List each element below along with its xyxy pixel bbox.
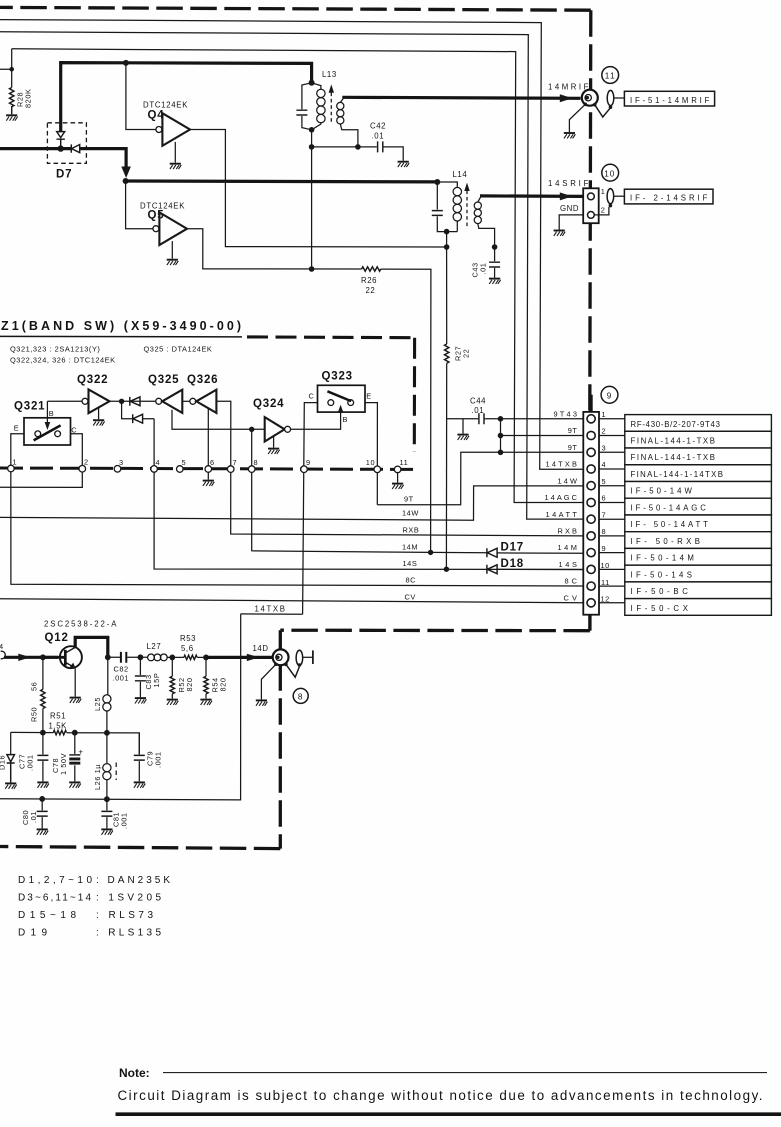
transistor Q322 [82,398,88,404]
transistor Q321 body [24,418,71,445]
node junction R53 / R54 [203,655,209,661]
svg-text:R53: R53 [180,634,196,643]
J9 pin 2 [587,431,595,439]
svg-text:11: 11 [605,72,617,81]
node junction rail / R50 [40,730,46,736]
wire 9T run from pin10 [377,452,583,505]
svg-text:IF- 50-RXB: IF- 50-RXB [631,537,701,546]
svg-text:CV: CV [564,593,578,602]
wire net 14ATT top bus (line B) [0,32,583,519]
module dashed box right edge [279,630,282,848]
svg-text:11: 11 [400,458,409,467]
svg-text:: RLS73: : RLS73 [96,910,154,921]
arrow on 14SRIF line [560,192,573,200]
wire ground rail and 14TXB riser [0,614,241,800]
Q323 base arrow [340,410,342,413]
svg-text:: DAN235K: : DAN235K [96,875,171,886]
wire Q322 node down to D16 [122,401,155,418]
node junction L27 / R52 [169,655,175,661]
ground below C79 [134,782,146,787]
svg-text:FINAL-144-1-14TXB: FINAL-144-1-14TXB [631,470,724,479]
diode D17 [487,548,497,557]
svg-text:D3~6,11~14: D3~6,11~14 [18,893,92,904]
destination box row 9 [625,548,772,565]
svg-text:Q321: Q321 [14,401,45,413]
svg-text:9T: 9T [568,426,578,435]
J9 pin 6 [587,498,595,506]
resistor R50 [42,657,44,689]
connector J9 stub bottom [588,615,591,631]
svg-text:B: B [49,409,54,418]
node junction collector / C82 / L25 [105,654,111,660]
svg-text:Q322: Q322 [77,374,108,386]
svg-text:820: 820 [185,678,194,692]
node junctions 9T tie [498,416,504,422]
circled 9 [601,386,618,403]
destination box row 4 [625,465,772,482]
svg-text:.001: .001 [154,751,163,768]
capacitor C42 [312,147,404,161]
svg-text:9: 9 [607,391,612,400]
svg-text:6: 6 [210,458,215,467]
svg-text:Note:: Note: [119,1066,150,1080]
bottom rule [116,1112,781,1116]
node junction Q324 input [249,427,254,432]
svg-text:5: 5 [182,458,187,467]
J9 pin 3 [587,448,595,456]
capacitor C77 [42,733,44,782]
destination box row 6 [625,498,772,515]
wire J8 ground prong [261,664,276,699]
wire 9T tie pins 1-3 [501,419,584,453]
svg-text:D19: D19 [18,928,48,939]
node junction bus2 start [123,178,129,184]
svg-text:RXB: RXB [558,527,578,536]
svg-text:R26: R26 [361,276,377,285]
wire J10 gnd [559,215,583,230]
svg-text:7: 7 [602,510,607,519]
node junction rail / C78 [72,730,78,736]
svg-text:E: E [14,424,19,433]
capacitor C43 [494,247,496,278]
wire L13 bottom to C42 line and down [311,130,313,269]
wire Q12 emitter [74,669,76,697]
svg-text:: 1SV205: : 1SV205 [96,893,162,904]
destination box row 1 [625,415,772,432]
J8 hook [286,664,300,677]
wire Q322 output node [110,400,156,402]
boundary: right dashed page border [590,10,591,412]
svg-text:DTC124EK: DTC124EK [143,101,188,110]
L13 adjustable core [330,93,332,125]
wire Q325 emitter to Q324 input [172,410,265,430]
svg-text:14SRIF: 14SRIF [548,179,589,188]
wire net 14TXB top bus (line A) [0,20,583,470]
wire thick Q12 collector loop [75,637,108,657]
svg-text:8C: 8C [406,576,417,585]
destination box row 7 [625,515,772,532]
svg-text:14AGC: 14AGC [545,493,578,502]
node junction C82 / C83 / L27 [138,654,144,660]
J9 wires to destination boxes [599,419,625,603]
connector J10 box [583,188,599,223]
svg-text:RF-430-B/2-207-9T43: RF-430-B/2-207-9T43 [631,420,721,429]
diode D16 (in Z1) [133,414,143,423]
svg-text:3: 3 [119,458,124,467]
svg-text:GND: GND [560,204,579,213]
svg-text:CV: CV [405,593,416,602]
ground below C78 [69,782,81,787]
node junction rail / L26 C81 [104,796,110,802]
inductor L25 [106,657,109,733]
resistor R1 R28 [10,88,14,115]
svg-text:2SC2538-22-A: 2SC2538-22-A [44,620,117,629]
resistor R53 [184,655,197,659]
svg-text:9: 9 [306,458,311,467]
svg-text:9T43: 9T43 [554,409,578,418]
inductor L26 [106,733,108,800]
svg-text:14S: 14S [403,559,418,568]
diode D16 [10,732,12,754]
wire pin4 vertical to 14S [154,419,583,570]
wire Q321 C to pin2 then left edge [0,434,82,488]
transistor Q326 [190,398,196,404]
Z1 dashed box top edge [247,335,415,339]
svg-text:3: 3 [602,444,607,453]
svg-text:D17: D17 [501,542,525,554]
Z1 pin circles [8,465,15,472]
svg-text:820K: 820K [24,89,33,108]
svg-text:Q323: Q323 [322,371,353,383]
svg-text:14M: 14M [402,543,418,552]
arrow to 14D [247,654,259,661]
diode D7 dashed package box [47,123,86,164]
svg-text:22: 22 [366,286,376,295]
svg-text:L25: L25 [93,697,102,711]
node junction R27 line to 14S [444,567,449,572]
svg-text:9T: 9T [568,443,578,452]
wire Q323 E to pin10 [365,403,377,505]
destination box row 12 [625,599,772,616]
svg-text:D7: D7 [56,169,72,181]
svg-text:4: 4 [602,460,607,469]
resistor R51 [53,730,66,734]
ground below R28 [6,115,18,120]
wire Q322 input [47,400,82,402]
capacitor L14 tank cap [437,182,457,232]
diode D7 upper element (vertical) [57,132,65,149]
inductor L13 secondary winding [337,102,344,109]
svg-text:1,5K: 1,5K [49,722,68,731]
capacitor C83 [139,657,141,697]
wire Q323 C to pin9 [303,403,318,615]
ground below C81 [101,829,113,834]
svg-text:Q325: Q325 [148,374,179,386]
svg-text:2: 2 [84,458,89,467]
wire net 14AGC top bus (line C) [12,49,584,503]
svg-text:: RLS135: : RLS135 [96,928,162,939]
arrow down onto bus2 [121,167,131,179]
ground at C44 [457,435,469,440]
ground below pin11 [397,472,399,483]
node junction rail / C80 [39,796,45,802]
svg-text:14D: 14D [253,644,269,653]
connector J9 stub top [589,395,592,412]
svg-text:14S: 14S [559,560,578,569]
capacitor C44 [447,419,584,434]
ground below Q324 [268,449,280,454]
J8 mating pin [296,650,303,665]
svg-text:.001: .001 [120,812,129,829]
resistor R27 [446,247,448,344]
node junction D7 [58,145,64,151]
svg-text:4: 4 [156,458,161,467]
svg-text:1: 1 [13,458,18,467]
node junction Q5 line / L13 leg [309,266,315,272]
svg-text:Q322,324, 326 : DTC124EK: Q322,324, 326 : DTC124EK [10,356,116,365]
connector J9 strip [583,412,599,615]
svg-text:.01: .01 [472,406,485,415]
svg-text:.001: .001 [113,674,130,683]
node junction R26 to 14M [428,550,433,555]
svg-text:9T: 9T [404,495,414,504]
svg-text:Q326: Q326 [187,374,218,386]
svg-text:L26 1µ: L26 1µ [93,764,102,790]
svg-text:IF-50-14S: IF-50-14S [631,570,693,579]
svg-text:Z1(BAND SW) (X59-3490-00): Z1(BAND SW) (X59-3490-00) [1,319,241,333]
wire thick 14SRIF output [480,194,583,198]
svg-text:14MRIF: 14MRIF [548,83,589,92]
destination box IF-51-14MRIF [624,91,714,106]
circled 10 [602,164,619,181]
svg-text:Q324: Q324 [253,398,284,410]
ground below C42 [398,162,410,167]
circled 11 [602,67,619,84]
wire R26 to 14M [381,269,431,552]
destination box row 8 [625,532,772,549]
transistor Q325 [156,398,162,404]
wire left edge curl [1,651,6,659]
svg-text:1: 1 [601,187,606,196]
svg-text:.01: .01 [479,263,488,275]
J9 pin 5 [587,482,595,490]
node junction L13 bottom [309,127,315,133]
J11 hook [595,105,611,117]
J9 pin 8 [587,532,595,540]
resistor R26 [362,267,381,271]
inductor L13 primary winding [312,83,321,130]
node junction C42 line [309,144,315,150]
diode D18 [487,565,497,574]
ground below D16 [5,783,17,788]
note separator line [163,1072,767,1074]
capacitor C78 electrolytic [74,733,76,782]
ground below C77 [37,782,49,787]
wire Q325 to Q326 [182,400,190,402]
wire pin8 vertical / 14M run [252,429,584,553]
diode D15 [130,397,140,406]
destination box IF-2-14SRIF [624,189,713,204]
boundary: top dashed page border [0,7,591,10]
svg-text:4: 4 [0,642,4,651]
wire Q4 input [126,63,156,130]
svg-text:Q12: Q12 [45,632,69,644]
svg-text:D1,2,7~10: D1,2,7~10 [18,875,93,886]
svg-text:8: 8 [298,693,303,702]
wire 14W run [0,486,583,520]
node junction rail / L25 [104,730,110,736]
diode D7 right element (horizontal) [71,144,79,152]
wire Q5 output to R26 [187,229,362,269]
ground below R52 [167,700,179,705]
svg-text:L13: L13 [322,70,337,79]
Z1 title underline [0,335,242,338]
J9 pin 10 [587,565,595,573]
svg-text:D18: D18 [501,558,525,570]
ground below Q4 [170,164,182,169]
ground at J10 [554,231,566,236]
capacitor C79 [138,733,140,782]
svg-text:FINAL-144-1-TXB: FINAL-144-1-TXB [631,453,716,462]
svg-text:RXB: RXB [403,526,420,535]
node junction Q4 line / L14 [444,244,450,250]
capacitor C81 [106,799,108,828]
capacitor C82 [108,656,141,658]
wire thick bus1 from D7 up and right to L13 [61,63,312,132]
wire J10 pin2 to mating pin [594,207,609,215]
Q321 base arrow [46,401,48,422]
node junction Q12 base / R50 [40,654,46,660]
svg-text:22: 22 [462,349,471,358]
connector J8 coax jack 14D [273,649,289,665]
inductor L14 primary winding [437,182,457,232]
wire 14TXB link line [241,613,303,615]
wire 14S diode to pin10 [497,568,583,570]
svg-text:FINAL-144-1-TXB: FINAL-144-1-TXB [631,437,716,446]
svg-text:.01: .01 [372,132,385,141]
svg-text:14ATT: 14ATT [546,510,578,519]
svg-text:14TXB: 14TXB [546,460,578,469]
svg-text:B: B [343,415,348,424]
ground below C83 [135,698,147,703]
ground below Q5 [167,260,179,265]
destination box row 5 [625,482,772,499]
ground below C80 [37,829,49,834]
node junction L14 top [434,179,440,185]
svg-text:.001: .001 [26,754,35,771]
ground at J8 [256,700,268,705]
transistor Q323 body [318,385,366,412]
J9 pin 4 [587,465,595,473]
destination box row 3 [625,448,772,465]
resistor R54 [205,657,207,676]
wire Q321 E to pin1 and 8C run [11,434,584,586]
svg-text:56: 56 [30,682,39,691]
wire Q326 output to pin7 / RXB [216,401,583,536]
wire bias rail [11,732,140,754]
connector J11 coax jack [582,90,598,106]
svg-text:L14: L14 [453,170,468,179]
node junction C43 [492,244,498,250]
J11 mating pin [607,90,614,105]
wire Q326 emitter to pin6 [207,408,209,480]
node junction L13 top [309,80,315,86]
svg-text:5,6: 5,6 [181,644,194,653]
svg-text:15P: 15P [152,673,161,688]
svg-text:14M: 14M [558,543,578,552]
svg-text:6: 6 [602,494,607,503]
svg-text:8C: 8C [565,577,578,586]
ground below pin6 [203,481,215,486]
svg-text:Circuit Diagram is subject to: Circuit Diagram is subject to change wit… [118,1088,763,1103]
J9 pin 9 [587,549,595,557]
destination box row 2 [625,431,772,448]
svg-text:2: 2 [602,427,607,436]
module dashed box bottom edge [0,847,280,849]
svg-text:C82: C82 [114,665,129,674]
transistor Q12 [60,646,82,668]
J9 pin 11 [587,582,595,590]
svg-text:5: 5 [602,477,607,486]
Z1 dashed box right edge [413,338,416,452]
svg-text:+: + [79,748,84,757]
transistor Q324 [265,417,285,441]
wire L14 bottom to Q4 line [446,232,448,247]
wire thick to 14D [206,656,273,659]
svg-text:C: C [71,426,77,435]
node junction at R28 top [9,67,14,72]
J10 mating pin [607,189,614,204]
svg-text:Q321,323 : 2SA1213(Y): Q321,323 : 2SA1213(Y) [10,345,100,354]
svg-text:R51: R51 [50,712,66,721]
arrow on Q12 input [18,654,30,661]
J9 pin 7 [587,515,595,523]
wire Q4 output to L14 tank bottom [190,130,447,248]
svg-text:9: 9 [602,544,607,553]
arrow on 14MRIF line [560,94,573,102]
resistor R52 [171,657,173,676]
svg-text:1: 1 [602,410,607,419]
svg-text:L27: L27 [147,642,162,651]
wire R28 feed from left edge [0,49,12,88]
svg-text:10: 10 [604,169,615,178]
ground below Q322 [93,420,105,425]
circled 8 [293,688,308,703]
wire thick main input line through D7 [0,149,126,169]
wire CV run [0,599,583,603]
svg-text:.01: .01 [29,811,38,823]
boundary bottom dashed to module [280,629,590,633]
svg-text:2: 2 [601,206,606,215]
wire J11 ground prong [569,104,585,132]
ground below Q12 [70,698,82,703]
wire thick 14MRIF output [342,97,580,98]
svg-text:8: 8 [254,458,259,467]
destination box row 10 [625,565,772,582]
L14 adjustable core [466,191,468,228]
inductor L14 secondary winding [474,202,481,209]
svg-text:8: 8 [602,527,607,536]
svg-text:Q5: Q5 [148,210,165,222]
svg-text:E: E [366,392,371,401]
node junction bus1 / Q4 feed [123,60,129,66]
svg-text:10: 10 [366,458,375,467]
svg-text:14W: 14W [402,509,419,518]
wire thick bus2 to L14 [126,179,438,183]
wire thick Q12 input [4,656,58,659]
svg-text:14W: 14W [558,476,578,485]
L26 core dashes [115,763,117,781]
